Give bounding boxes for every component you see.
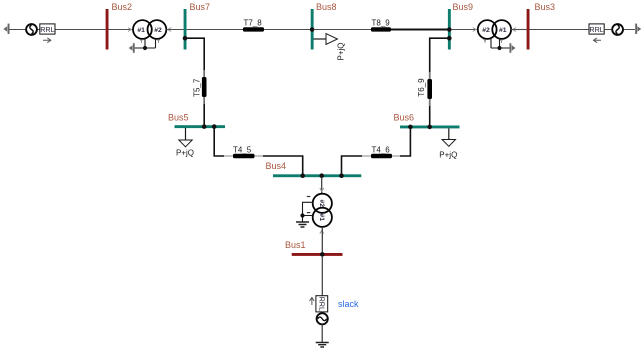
stub: gray connector ends of T4_6 bbox=[362, 155, 400, 157]
svg-text:slack: slack bbox=[338, 299, 359, 309]
tap chevron left of TR9-3 bbox=[473, 28, 476, 32]
wire: Bus1 to slack RRL bbox=[321, 256, 323, 296]
svg-text:#1: #1 bbox=[499, 27, 507, 34]
svg-text:RRL: RRL bbox=[40, 25, 54, 34]
svg-text:Bus6: Bus6 bbox=[394, 113, 415, 123]
svg-text:T8_9: T8_9 bbox=[372, 18, 391, 27]
source G-left: AC voltage source circle bbox=[26, 24, 37, 35]
arrow: load-flow direction under left RRL bbox=[43, 38, 51, 43]
svg-text:T7_8: T7_8 bbox=[244, 18, 263, 27]
wire: line T7_8 to Bus8 bbox=[264, 29, 311, 31]
bus Bus2 (110 kV busbar) bbox=[106, 9, 109, 50]
transformer TR4-1 (two-winding, Bus4/Bus1, vertical) bbox=[313, 194, 332, 227]
line T8_9 bbox=[371, 27, 391, 31]
svg-text:#2: #2 bbox=[482, 27, 490, 34]
wire: Bus9 to line T6_9 (L-run down to Bus6) bbox=[430, 38, 450, 125]
junction: T4_5 tap at Bus5 bbox=[212, 124, 217, 129]
svg-text:#2: #2 bbox=[318, 200, 325, 208]
svg-text:Bus2: Bus2 bbox=[112, 2, 133, 12]
junction: Bus9 branch tap bbox=[447, 36, 452, 41]
svg-text:T5_7: T5_7 bbox=[192, 78, 201, 97]
wire: Bus4 to transformer TR4-1 bbox=[321, 177, 323, 194]
load at Bus8 (P+jQ) bbox=[314, 38, 327, 40]
external grid RRL (right) box bbox=[589, 24, 604, 34]
svg-text:Bus1: Bus1 bbox=[285, 240, 306, 250]
line T4_5 bbox=[233, 154, 255, 158]
bus Bus4 bbox=[273, 174, 361, 177]
svg-text:P+jQ: P+jQ bbox=[337, 42, 346, 60]
svg-text:Bus4: Bus4 bbox=[266, 161, 287, 171]
wire: left external grid run (ground to source to RRL to Bus2) bbox=[9, 29, 106, 31]
wire: line T8_9 to Bus9 (thick) bbox=[391, 29, 448, 31]
junction: slack feeder at Bus1 bbox=[320, 252, 325, 257]
svg-text:T6_9: T6_9 bbox=[417, 78, 426, 97]
svg-text:RRL: RRL bbox=[589, 25, 603, 34]
wire: Bus7 to line T5_7 (L-run down to Bus5) bbox=[185, 38, 204, 125]
wire: transformer TR4-1 to Bus1 bbox=[321, 227, 323, 253]
line T4_6 bbox=[371, 154, 392, 158]
svg-text:Y: Y bbox=[483, 39, 487, 45]
junction: TR9-3 neutral bbox=[497, 46, 501, 50]
svg-text:P+jQ: P+jQ bbox=[176, 149, 194, 158]
svg-text:#1: #1 bbox=[318, 214, 325, 222]
svg-text:Y: Y bbox=[140, 39, 144, 45]
wire: line T4_5 to Bus4 bbox=[263, 156, 303, 175]
wire: line T4_6 to Bus6 bbox=[400, 128, 410, 156]
svg-text:Bus5: Bus5 bbox=[168, 113, 189, 123]
svg-text:Y: Y bbox=[500, 39, 504, 45]
wire: TR4-1 neutral earthing bbox=[303, 202, 313, 221]
wire: transformer TR9-3 to Bus3 bbox=[511, 29, 526, 31]
transformer TR2-7 (two-winding, Bus2/Bus7) bbox=[133, 20, 166, 39]
line T7_8 bbox=[243, 27, 264, 31]
junction: Bus9 on main line bbox=[447, 27, 452, 32]
junction: TR4-1 neutral bbox=[300, 213, 304, 217]
junction: T6_9 at Bus6 bbox=[427, 125, 432, 130]
svg-text:Bus7: Bus7 bbox=[190, 2, 211, 12]
wire: Bus7 to line T7_8 bbox=[187, 29, 244, 31]
wire: Bus8 to line T8_9 bbox=[314, 29, 372, 31]
svg-text:Bus8: Bus8 bbox=[316, 2, 337, 12]
tap chevron left of TR2-7 bbox=[128, 28, 131, 32]
ground: right external-grid earth symbol bbox=[635, 24, 641, 34]
svg-text:T4_5: T4_5 bbox=[233, 145, 252, 154]
wire: source to earth bbox=[321, 324, 323, 342]
svg-text:Y: Y bbox=[157, 39, 161, 45]
wire: TR9-3 neutral earthing bbox=[491, 39, 510, 48]
bus Bus5 bbox=[175, 125, 226, 128]
wire: transformer TR2-7 to Bus7 bbox=[166, 29, 183, 31]
source G-slack: AC voltage source circle bbox=[317, 313, 328, 324]
external grid RRL (slack) box bbox=[316, 296, 328, 312]
line T5_7 bbox=[202, 77, 207, 97]
stub: gray connector ends of T5_7 bbox=[203, 70, 205, 104]
ground: TR4-1 neutral earth bbox=[296, 222, 309, 227]
bus Bus6 bbox=[400, 126, 460, 129]
wire: Bus2 to transformer TR2-7 bbox=[109, 29, 134, 31]
load at Bus5 (P+jQ) bbox=[185, 128, 187, 140]
tap chevron below TR4-1 bbox=[320, 230, 324, 233]
wire: Bus4 to line T4_6 (L-run) bbox=[342, 156, 363, 175]
external grid RRL (left) box bbox=[40, 24, 55, 34]
tap chevron right of TR9-3 bbox=[513, 28, 516, 32]
svg-text:P+jQ: P+jQ bbox=[439, 151, 457, 160]
wire: TR2-7 neutral earthing bbox=[135, 39, 156, 48]
bus Bus9 bbox=[448, 9, 451, 50]
junction: T5_7 at Bus5 bbox=[202, 124, 207, 129]
ground: slack earth bbox=[316, 343, 329, 348]
junction: T4_5 at Bus4 bbox=[300, 173, 305, 178]
bus Bus7 bbox=[184, 9, 187, 50]
tap chevron right of TR2-7 bbox=[168, 28, 171, 32]
arrow: load-flow direction beside slack RRL bbox=[310, 297, 315, 305]
bus Bus3 bbox=[527, 9, 530, 50]
wire: Bus5 to line T4_5 (L-run) bbox=[214, 128, 224, 156]
bus Bus1 bbox=[292, 253, 343, 256]
source G-right: AC voltage source circle bbox=[612, 24, 623, 35]
svg-text:Bus9: Bus9 bbox=[453, 2, 474, 12]
junction: T4_6 at Bus4 bbox=[339, 173, 344, 178]
ground: left external-grid earth symbol bbox=[3, 24, 9, 34]
arrow: load-flow direction under right RRL bbox=[594, 38, 602, 43]
junction: T4_6 at Bus6 bbox=[408, 125, 413, 130]
transformer TR9-3 (two-winding, Bus9/Bus3) bbox=[478, 20, 511, 39]
ground: TR9-3 neutral earth bbox=[510, 43, 516, 53]
junction: TR2-7 neutral bbox=[143, 46, 147, 50]
load at Bus6 (P+jQ) bbox=[448, 128, 450, 139]
wire: Bus3 to right external grid bbox=[530, 29, 636, 31]
junction: Bus8 on main line bbox=[310, 27, 315, 32]
junction: transformer tap at Bus4 bbox=[319, 173, 324, 178]
stub: gray connector ends of T4_5 bbox=[224, 155, 263, 157]
stub: gray connector ends of T6_9 bbox=[429, 72, 431, 106]
bus Bus8 bbox=[311, 9, 314, 50]
winding dash (TR4-1 #2) bbox=[307, 196, 311, 198]
tap chevron above TR4-1 bbox=[320, 188, 324, 191]
line T6_9 bbox=[427, 79, 432, 99]
svg-text:T4_6: T4_6 bbox=[372, 145, 391, 154]
wire: Bus9 to transformer TR9-3 bbox=[451, 29, 478, 31]
svg-text:Bus3: Bus3 bbox=[535, 2, 556, 12]
ground: TR2-7 neutral earth bbox=[129, 43, 135, 53]
svg-text:#1: #1 bbox=[137, 27, 145, 34]
winding dash (TR4-1 #1) bbox=[307, 212, 311, 214]
junction: Bus7 branch tap bbox=[183, 36, 188, 41]
svg-text:RRL: RRL bbox=[317, 297, 326, 311]
svg-text:#2: #2 bbox=[154, 27, 162, 34]
